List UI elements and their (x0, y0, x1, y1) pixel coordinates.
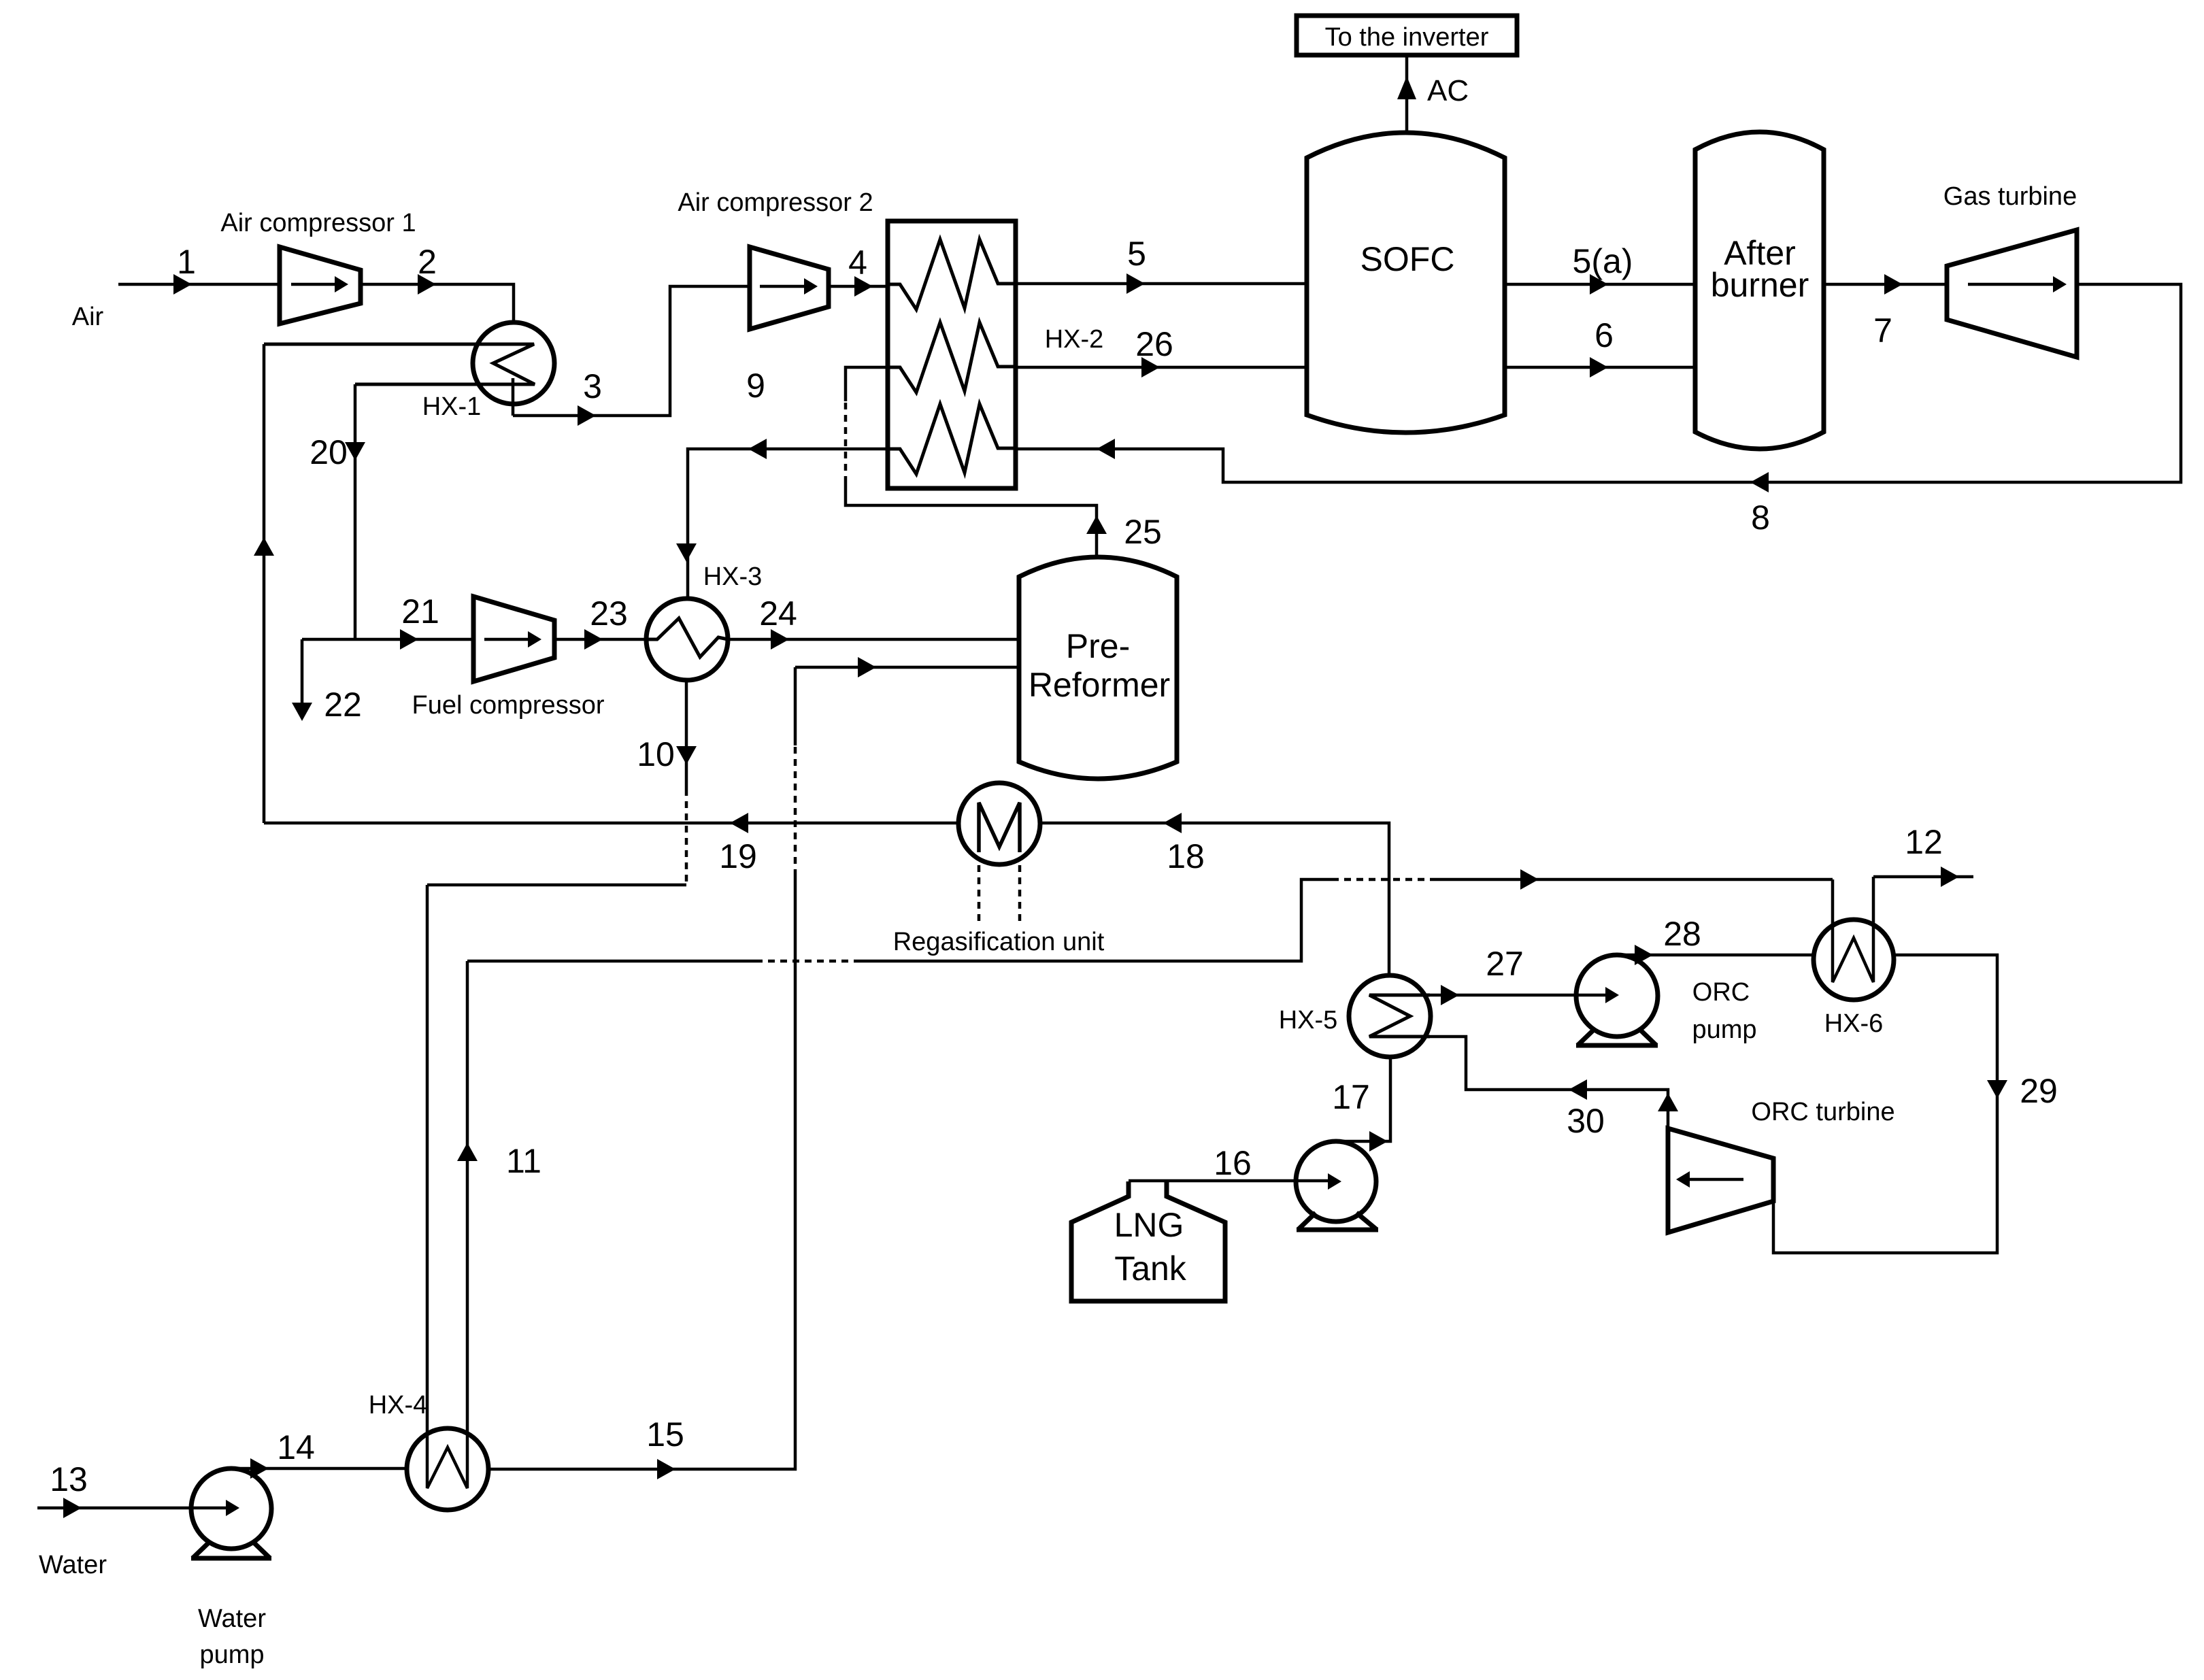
heat exchanger HX-2 shell (888, 221, 1016, 488)
wire stream 2 (361, 284, 514, 324)
wire stream 13 (Water inlet) (37, 1507, 231, 1510)
heat exchanger HX-3 (646, 599, 728, 680)
svg-text:HX-5: HX-5 (1279, 1006, 1338, 1035)
svg-text:Air: Air (72, 303, 104, 331)
svg-text:pump: pump (199, 1641, 264, 1669)
svg-text:9: 9 (746, 367, 765, 405)
pump OP (ORC pump) (1576, 955, 1658, 1037)
svg-text:Air compressor 1: Air compressor 1 (220, 209, 416, 237)
svg-text:27: 27 (1486, 945, 1524, 983)
wire stream 15 (HX-4 to riser) (488, 876, 795, 1469)
svg-text:AC: AC (1427, 74, 1469, 107)
HX-2 middle coil (888, 322, 1016, 392)
svg-text:4: 4 (848, 243, 867, 282)
box To the inverter (1297, 16, 1517, 55)
wire stream 21 (302, 638, 473, 641)
svg-text:14: 14 (277, 1428, 315, 1466)
compressor AC2 (Air compressor 2) (750, 247, 829, 329)
compressor AC1 (Air compressor 1) (280, 247, 361, 324)
svg-text:5(a): 5(a) (1573, 242, 1633, 280)
heat exchanger HX-5 (1349, 975, 1431, 1057)
svg-text:24: 24 (759, 594, 797, 633)
svg-text:2: 2 (418, 243, 437, 281)
svg-text:HX-2: HX-2 (1045, 325, 1104, 354)
svg-text:1: 1 (177, 243, 196, 281)
wire stream 9 (HX-2 to HX-3) (688, 449, 888, 600)
svg-text:22: 22 (324, 686, 362, 724)
heat exchanger HX-4 (407, 1428, 488, 1510)
svg-text:Gas turbine: Gas turbine (1943, 182, 2077, 211)
vessel Pre-Reformer (1019, 557, 1177, 779)
svg-text:18: 18 (1167, 837, 1205, 875)
svg-text:SOFC: SOFC (1360, 240, 1455, 278)
wire stream 5 (1016, 282, 1309, 286)
wire stream 25 (Pre-Reformer to HX-2) (846, 483, 1097, 559)
wire stream 30 (turbine to HX-5) (1430, 1037, 1668, 1128)
heat exchanger HX-1 (473, 322, 554, 404)
svg-text:Water: Water (198, 1605, 266, 1633)
turbine GT (Gas turbine) (1947, 230, 2077, 357)
wire AC output (1405, 55, 1409, 133)
wire stream 6 (1505, 366, 1695, 369)
wire stream 12 out (1873, 875, 1973, 879)
wire stream 22 purge (301, 639, 304, 718)
svg-text:Reformer: Reformer (1029, 666, 1170, 704)
svg-text:28: 28 (1663, 915, 1701, 953)
svg-text:Water: Water (39, 1551, 107, 1579)
vessel After burner (1695, 132, 1824, 449)
wire stream 4 (829, 285, 888, 288)
svg-text:30: 30 (1567, 1102, 1605, 1140)
svg-text:23: 23 (590, 594, 628, 633)
wire stream 11 arrow (457, 1143, 478, 1161)
turbine OT (ORC turbine) (1668, 1128, 1773, 1232)
wire stream 10 (HX-3 down to HX-4) (685, 680, 688, 789)
wire stream 17 (1336, 1057, 1390, 1141)
wire stream 24 (728, 638, 1019, 641)
svg-text:HX-4: HX-4 (369, 1391, 428, 1419)
svg-text:HX-3: HX-3 (703, 562, 763, 591)
wire stream 7 (1824, 283, 1947, 286)
wire stream 3 (513, 286, 750, 416)
wire stream 28 (1617, 954, 1814, 957)
wire stream 11/12 (HX-4 to HX-6) (467, 960, 756, 963)
svg-text:Air compressor 2: Air compressor 2 (678, 188, 873, 217)
wire stream 15 into Pre-Reformer (795, 666, 1019, 669)
svg-text:HX-6: HX-6 (1824, 1009, 1884, 1038)
wire stream 14 (231, 1467, 407, 1471)
svg-text:HX-1: HX-1 (422, 392, 482, 421)
svg-text:ORC turbine: ORC turbine (1751, 1098, 1894, 1126)
svg-text:Regasification unit: Regasification unit (893, 928, 1105, 956)
svg-text:11: 11 (506, 1142, 541, 1180)
svg-text:17: 17 (1332, 1078, 1370, 1116)
pump LP (LNG pump) (1296, 1141, 1376, 1222)
wire stream 8 (GT exhaust back to HX-2) (1016, 284, 2181, 482)
svg-text:3: 3 (583, 367, 602, 405)
svg-text:16: 16 (1214, 1144, 1252, 1182)
wire stream 18 (HX-5 to regasification unit) (1040, 823, 1389, 975)
vessel SOFC (1307, 133, 1505, 433)
svg-text:6: 6 (1594, 316, 1614, 354)
svg-text:13: 13 (50, 1460, 88, 1498)
svg-text:12: 12 (1905, 823, 1943, 861)
svg-text:Tank: Tank (1114, 1249, 1187, 1288)
svg-text:To the inverter: To the inverter (1325, 23, 1489, 52)
svg-text:Pre-: Pre- (1066, 627, 1130, 665)
wire stream 26 (1016, 366, 1309, 369)
svg-text:pump: pump (1692, 1015, 1756, 1044)
svg-text:19: 19 (719, 837, 757, 875)
HX-2 bottom coil (888, 404, 1016, 474)
svg-text:15: 15 (646, 1415, 684, 1454)
svg-text:21: 21 (401, 592, 439, 631)
wire stream 23 (554, 638, 647, 641)
compressor FC (Fuel compressor) (473, 597, 554, 682)
HX-2 top coil (888, 239, 1016, 309)
wire stream 16 (1129, 1179, 1336, 1183)
wire stream 27 (1430, 994, 1576, 997)
svg-text:8: 8 (1751, 499, 1770, 537)
regasification unit (958, 783, 1040, 864)
pump WP (Water pump) (191, 1468, 271, 1549)
wire stream 1 (Air inlet) (118, 283, 280, 286)
vessel LNG Tank (1071, 1181, 1225, 1301)
svg-text:LNG: LNG (1114, 1206, 1184, 1244)
svg-text:20: 20 (310, 433, 348, 471)
wire stream 19 loop (left riser to HX-1) (263, 344, 266, 823)
svg-text:7: 7 (1873, 312, 1892, 350)
wire stream 20 (HX-1 to fuel junction) (354, 384, 357, 639)
svg-text:5: 5 (1127, 235, 1146, 273)
svg-text:25: 25 (1124, 513, 1162, 551)
wire stream 5(a) (1505, 283, 1695, 286)
svg-text:Fuel compressor: Fuel compressor (412, 691, 605, 720)
svg-text:burner: burner (1711, 266, 1809, 304)
svg-text:ORC: ORC (1692, 978, 1750, 1007)
svg-text:10: 10 (637, 735, 675, 773)
wire stream 29 (HX-6 to ORC turbine) (1773, 955, 1997, 1253)
heat exchanger HX-6 (1814, 920, 1894, 1000)
svg-text:29: 29 (2020, 1072, 2058, 1110)
svg-text:26: 26 (1135, 325, 1173, 363)
